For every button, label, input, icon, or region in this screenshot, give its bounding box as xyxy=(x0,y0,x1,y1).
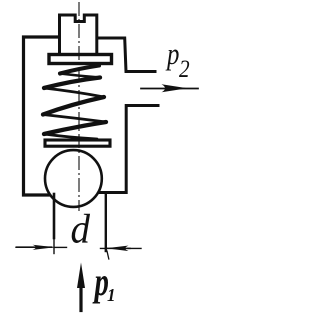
svg-text:p: p xyxy=(165,37,179,71)
svg-text:1: 1 xyxy=(107,285,116,306)
svg-text:2: 2 xyxy=(179,55,190,83)
svg-text:d: d xyxy=(71,206,91,252)
